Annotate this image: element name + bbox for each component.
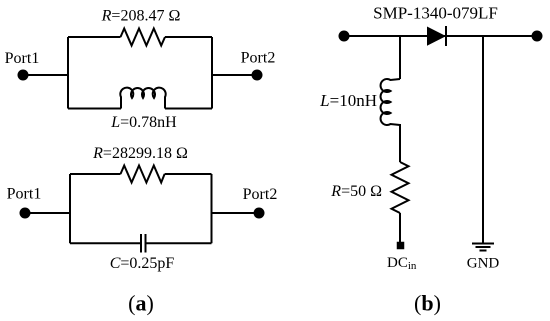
- node box outline (a) bottom: [70, 174, 212, 243]
- resistor R=28299.18 ohm: [121, 166, 165, 183]
- node DCin terminal square: [397, 242, 405, 250]
- capacitor C=0.25pF: [141, 234, 146, 253]
- node box outline (a) top: [68, 37, 212, 109]
- svg-text:R=28299.18 Ω: R=28299.18 Ω: [92, 145, 188, 162]
- svg-text:Port1: Port1: [7, 186, 42, 203]
- svg-text:R=50 Ω: R=50 Ω: [330, 183, 382, 200]
- diode SMP-1340-079LF triangle: [427, 27, 446, 46]
- inductor L=10nH: [381, 79, 400, 125]
- wire top rail (b): [344, 35, 537, 37]
- svg-text:(b): (b): [414, 291, 441, 316]
- svg-text:Port2: Port2: [243, 186, 278, 203]
- svg-text:SMP-1340-079LF: SMP-1340-079LF: [373, 4, 498, 23]
- ground: [472, 244, 494, 251]
- svg-text:Port1: Port1: [5, 50, 40, 67]
- wire box to Port2 (a) bottom: [212, 212, 260, 214]
- resistor R=208.47 ohm: [121, 29, 166, 46]
- node Port2 terminal (a) bottom: [254, 208, 265, 219]
- node Port2 terminal (a) top: [252, 70, 263, 81]
- wire left branch middle (b): [399, 124, 401, 162]
- svg-text:L=0.78nH: L=0.78nH: [110, 114, 177, 131]
- svg-text:DCin: DCin: [387, 255, 417, 272]
- wire Port1 to box (a) bottom: [25, 212, 70, 214]
- wire box to Port2 (a) top: [212, 74, 257, 76]
- svg-text:C=0.25pF: C=0.25pF: [110, 255, 175, 272]
- node Port1 terminal (a) top: [18, 70, 29, 81]
- node left (b): [339, 31, 350, 42]
- wire right branch (b): [482, 36, 484, 244]
- svg-text:(a): (a): [128, 291, 154, 316]
- wire left branch lower (b): [399, 213, 401, 242]
- svg-text:L=10nH: L=10nH: [319, 91, 377, 110]
- svg-text:GND: GND: [467, 256, 500, 272]
- wire Port1 to box (a) top: [23, 74, 68, 76]
- inductor L=0.78nH: [120, 88, 165, 109]
- node right (b): [532, 31, 543, 42]
- svg-text:Port2: Port2: [241, 50, 276, 67]
- resistor R=50 ohm: [392, 162, 409, 213]
- node Port1 terminal (a) bottom: [20, 208, 31, 219]
- svg-text:R=208.47 Ω: R=208.47 Ω: [101, 8, 181, 25]
- diode SMP-1340-079LF cathode bar: [445, 26, 447, 46]
- wire left branch upper (b): [399, 36, 401, 79]
